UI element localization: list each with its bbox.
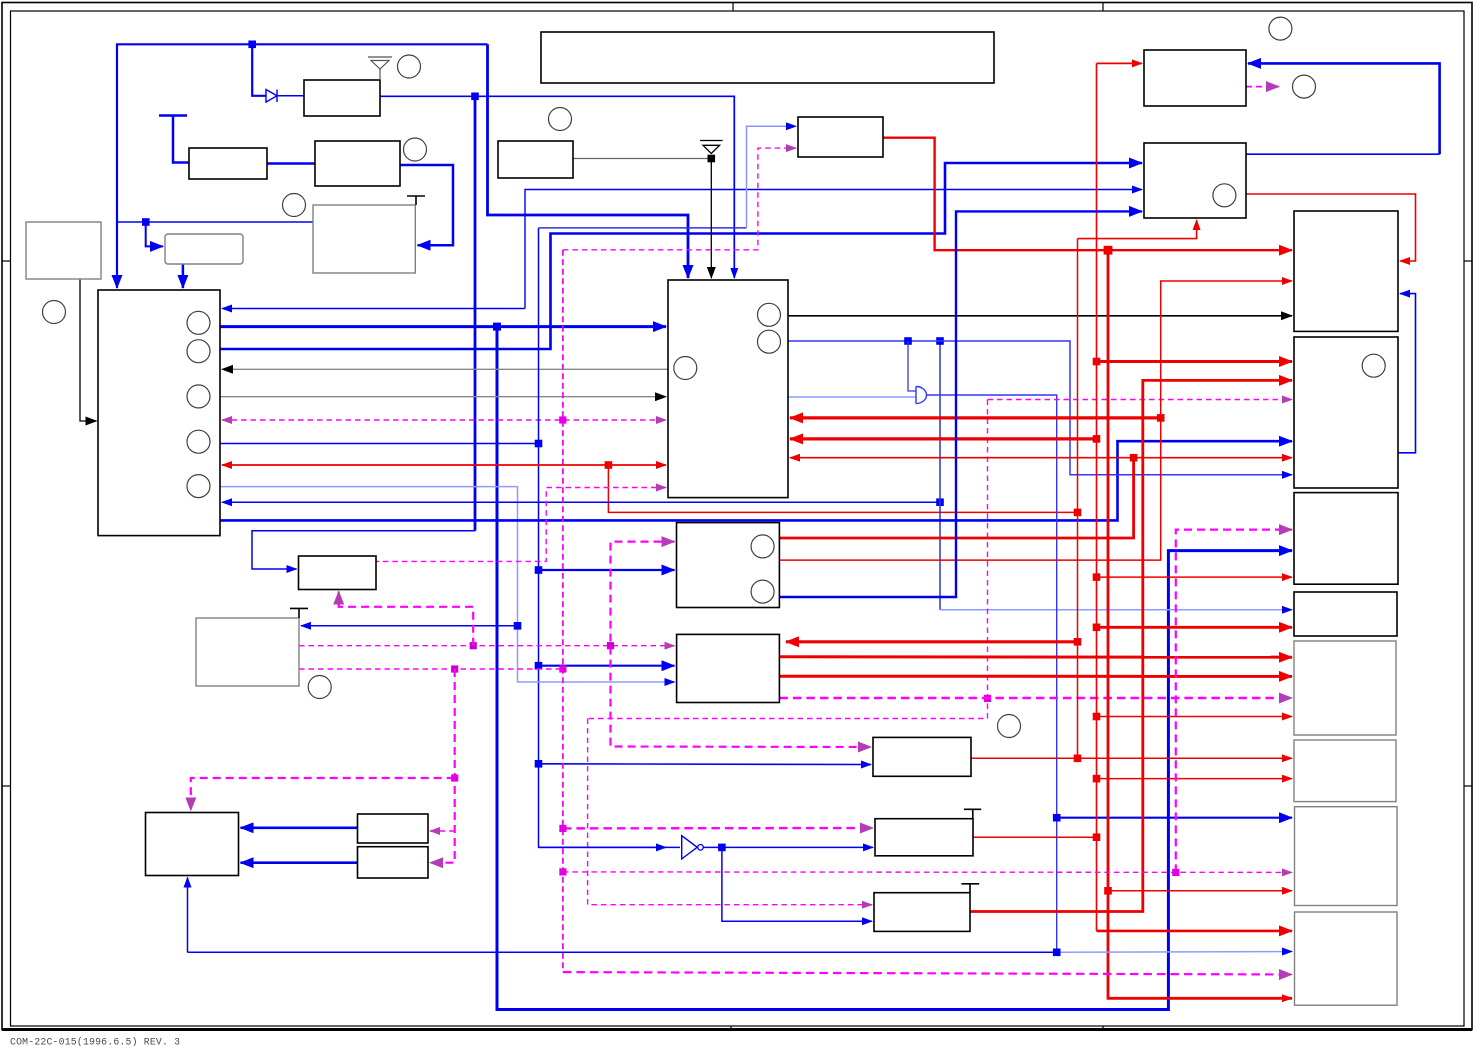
wire: box H blue y=597 up x=956 to box B y=211 bbox=[779, 211, 1142, 597]
block box B bbox=[1144, 143, 1246, 218]
block box5 bbox=[798, 117, 883, 157]
wire: red thick y=439 into center box from x=1096 bbox=[790, 437, 1097, 440]
wire: box B red loop to box C right bbox=[1246, 194, 1416, 261]
block gray TL2 bbox=[313, 205, 415, 273]
junction J6 bbox=[535, 760, 543, 768]
T terminator above box F area bbox=[290, 608, 308, 618]
wire: red y=457.7 center box and box D from x=1133 bbox=[790, 457, 1134, 459]
block box H bbox=[677, 523, 780, 608]
wire: y=222 line to gray box TL2 bbox=[117, 221, 313, 223]
junction J17 bbox=[1130, 454, 1138, 462]
wire: box A magenta stub out bbox=[1246, 86, 1279, 88]
inverter U2 bbox=[682, 836, 698, 859]
junction J23 bbox=[1093, 624, 1101, 632]
wire: y=502 into left box from junction x=940 bbox=[222, 501, 940, 503]
diode to ground symbol above center box bbox=[700, 141, 723, 154]
wire: branch to box G right edge bbox=[301, 625, 518, 627]
block box P bbox=[875, 819, 973, 856]
wire: magenta x=987 corner y=399 into box D bbox=[988, 399, 1293, 401]
wire: thick magenta x=610 into box H and box K bbox=[611, 542, 872, 747]
wire: x=475 thick vertical then to box F bbox=[474, 96, 477, 531]
wire: thick red y=641.8 into box I right bbox=[786, 640, 1078, 643]
block box C bbox=[1294, 211, 1398, 331]
junction J36 bbox=[1053, 949, 1061, 957]
wire: gate input from junction x=908 bbox=[908, 341, 916, 391]
wire: boxes M N to box L thick blue bbox=[241, 826, 358, 829]
wire: box K red y=758 to box H2 bbox=[971, 757, 1292, 759]
junction J16 bbox=[1093, 435, 1101, 443]
wire: box D right to box C right blue loop bbox=[1398, 294, 1416, 453]
block box K bbox=[873, 737, 971, 776]
junction J15 bbox=[1157, 414, 1165, 422]
junction J21 bbox=[1093, 358, 1101, 366]
junction J3 bbox=[535, 440, 543, 448]
block box I2 bbox=[1295, 807, 1398, 906]
junction J12 bbox=[904, 337, 912, 345]
junction J28 bbox=[559, 868, 566, 875]
block box L bbox=[146, 813, 239, 876]
wire: box1 right y=96 to center box top x=734 bbox=[380, 96, 734, 278]
junction J29 bbox=[559, 665, 566, 672]
wire: left box y=326 thick to center box bbox=[220, 325, 666, 328]
wire: box E magenta in from x=1175 bbox=[1176, 530, 1292, 873]
wire: red thick y=418 into center box from x=1161 bbox=[790, 416, 1161, 419]
block center box bbox=[668, 280, 788, 498]
wire: branch x=722 down to box Q bbox=[722, 847, 872, 921]
block box1 bbox=[304, 80, 380, 116]
node circles in center box bbox=[674, 357, 697, 380]
wire: gray from box4 to diode junction bbox=[573, 158, 711, 160]
block box I bbox=[677, 634, 780, 702]
junction J2 bbox=[559, 416, 566, 423]
wire: junction down to small gray box bbox=[146, 222, 163, 246]
wire: x=1108 thick red bus down to box J2 low bbox=[1108, 250, 1292, 998]
wire: thick corner x=487 down to center box top bbox=[488, 44, 689, 278]
block big top bbox=[541, 32, 994, 83]
junction J5 bbox=[535, 662, 543, 670]
wire: y=308 into left box / up x=525 to boxB y=190 bbox=[222, 308, 525, 310]
node circle below box G bbox=[308, 676, 331, 699]
wire: thick magenta into box F bottom bbox=[339, 592, 474, 646]
junction J22 bbox=[1093, 573, 1101, 581]
block left box bbox=[98, 290, 220, 536]
node circle right of box A bbox=[1293, 75, 1316, 98]
wire: x=1142 thick red box Q up to box D bbox=[970, 380, 1292, 911]
junction J19 bbox=[1074, 755, 1082, 763]
wire: magenta x=587 down to box Q bbox=[588, 719, 872, 905]
wire: gray y=397 into center box bbox=[220, 396, 666, 398]
wire: box P red out to x=1096 bbox=[973, 836, 1097, 838]
junction J30 bbox=[559, 825, 566, 832]
wire: box G magenta y=646 to box I bbox=[299, 645, 675, 647]
junction J4 bbox=[535, 566, 543, 574]
wire: left box y=443 to junction x=538 bbox=[220, 443, 539, 445]
junction J1 bbox=[142, 218, 150, 226]
wire: x=1096 branch y=577 to box E bbox=[1097, 576, 1293, 578]
block box H2 bbox=[1294, 740, 1396, 802]
wire: pale gate input from center box bbox=[788, 396, 916, 398]
wire: magenta y=420 between left box and center box bbox=[222, 419, 666, 421]
wire: x=1108 branch y=891 to box I2 bbox=[1108, 890, 1292, 892]
wire: x=538 long vertical bus bbox=[539, 228, 667, 848]
wire: box G magenta y=669 to x=562 bbox=[299, 668, 563, 670]
wire: x=940 vertical down to pale y=609 into box F2 bbox=[939, 341, 941, 610]
junction J34 bbox=[451, 774, 458, 781]
junction J35 bbox=[718, 844, 726, 852]
junction top bus bbox=[248, 41, 256, 49]
wire: x=538 branch to box K bbox=[539, 763, 872, 766]
ground symbol above box1 bbox=[368, 57, 392, 80]
T-symbol blue top left bbox=[159, 116, 189, 163]
block box G2 bbox=[1294, 641, 1396, 735]
T terminator above gray TL2 bbox=[407, 196, 425, 205]
junction J11 bbox=[936, 337, 944, 345]
wire: magenta feed to box5 lower via x=757 bbox=[563, 148, 796, 250]
junction J13 bbox=[1053, 814, 1061, 822]
wire: black center box to box C bbox=[788, 315, 1292, 317]
wire: pale y=486 from left box down x=517 to box I bbox=[220, 487, 675, 682]
wire: gray y=369 arrow into left box bbox=[222, 368, 668, 370]
wire: blue y=341 center box to box D via x=1070 bbox=[788, 341, 1292, 475]
node circles in box H bbox=[751, 535, 774, 558]
block box2 bbox=[189, 148, 267, 179]
svg-text:COM-22C-015(1996.6.5) REV. 3: COM-22C-015(1996.6.5) REV. 3 bbox=[10, 1037, 180, 1046]
node circle at box3 right bbox=[404, 138, 427, 161]
T terminator above box Q bbox=[961, 884, 979, 893]
wire: x=1077 red vertical bbox=[1077, 239, 1079, 759]
gate U1 (half-circle) bbox=[916, 387, 927, 404]
junction J14 bbox=[984, 695, 991, 702]
node circle above box4 bbox=[549, 108, 572, 131]
node circle in box B bbox=[1213, 184, 1236, 207]
wire: x=1057 branch y=817 to box I2 bbox=[1057, 817, 1292, 819]
junction J10 bbox=[936, 498, 944, 506]
wire: black vertical into center box top bbox=[710, 159, 712, 279]
wire: left box y=349 up over to boxB y=163 bbox=[220, 163, 1142, 349]
inverter U2 input wire bbox=[539, 846, 681, 848]
wire: thick y=520 from left box up x=1117 into box D bbox=[220, 441, 1292, 520]
junction J25 bbox=[1093, 775, 1101, 783]
wire: red branch down to y=513 over to x=1077 bbox=[608, 465, 1077, 512]
node circle in box D bbox=[1362, 354, 1385, 377]
node circle left of left box bbox=[43, 301, 66, 324]
wire: thick magenta y=698 box I to box G2 bbox=[779, 697, 1292, 699]
wire: x=497 thick bus down right along bottom up to box E bbox=[497, 327, 1292, 1010]
wire: small gray box down to left box bbox=[182, 264, 185, 288]
wire: red y=465 left box to center box bbox=[222, 464, 666, 466]
wire: gate output down x=1057 to y=952 junction bbox=[927, 395, 1057, 952]
wire: box B to box A blue loop bbox=[1246, 153, 1440, 155]
T terminator above box P bbox=[964, 809, 981, 818]
wire: junction to diode to box1 bbox=[252, 44, 266, 96]
wire: x=1096 branch y=716 to box G2 bbox=[1097, 716, 1293, 718]
wire: x=538 branch to box I bbox=[539, 665, 675, 667]
wire: red into box A from x=1096 bbox=[1097, 62, 1143, 64]
wire: magenta x=454 down to boxes M N and L bbox=[430, 669, 455, 863]
wire: box B bottom red from corner x=1077 bbox=[1078, 220, 1197, 239]
wire: box2 to box3 bbox=[267, 162, 315, 165]
wire: box L bottom feed y=952 long line to box J2 bbox=[187, 878, 189, 953]
block box3 bbox=[315, 141, 400, 186]
block gray small relay bbox=[165, 234, 243, 264]
block box J2 bbox=[1295, 912, 1398, 1005]
block box F2 bbox=[1294, 592, 1397, 636]
junction x=475 y=96 bbox=[471, 93, 479, 101]
wire: x=1096 branch y=778 to box H2 bbox=[1097, 778, 1293, 780]
junction J32 bbox=[607, 642, 614, 649]
wire: magenta x=546 center box to box F bbox=[376, 488, 666, 562]
junction J20 bbox=[1104, 887, 1112, 895]
wire: x=1096 red vertical to corner y=930 thick into box J2 bbox=[1096, 63, 1098, 931]
block gray TL1 bbox=[26, 222, 101, 279]
node circle left of gray TL2 bbox=[283, 194, 306, 217]
wire: box I red outs to box G2 bbox=[779, 655, 1292, 658]
block box F bbox=[299, 556, 377, 590]
block box4 bbox=[498, 141, 573, 178]
wire: x=538 branch to box H bbox=[539, 569, 675, 571]
node circle above box K right bbox=[998, 715, 1021, 738]
node circle near box1 bbox=[398, 55, 421, 78]
wire: magenta y=872 to box I2 bbox=[563, 871, 1292, 874]
wire: box3 to gray box TL2 bbox=[400, 165, 453, 245]
wire: box5 red thick down x=934 along y=250 to box C bbox=[883, 138, 1292, 251]
wire: thick magenta y=828 to box P bbox=[563, 827, 873, 830]
junction J7 bbox=[605, 461, 613, 469]
junction J27 bbox=[1172, 869, 1179, 876]
block box G bbox=[196, 618, 299, 686]
block box D bbox=[1294, 337, 1398, 488]
block box E bbox=[1294, 493, 1398, 585]
junction J33 bbox=[451, 665, 458, 672]
node circles in left box bbox=[187, 311, 210, 334]
wire: box H red y=560 up x=1161 to box C bbox=[779, 281, 1292, 560]
junction J26 bbox=[1093, 833, 1101, 841]
node: black junction at diode bbox=[708, 155, 716, 163]
block box Q bbox=[874, 893, 970, 932]
wire: top blue bus y=44 bbox=[117, 44, 488, 288]
wire: gray TL1 box black line to left box bbox=[80, 279, 97, 421]
wire: feed to box5 upper (pale riser) bbox=[539, 227, 747, 229]
wire: inverter output to box P bbox=[703, 846, 873, 848]
block box M bbox=[358, 814, 429, 843]
block box A bbox=[1144, 50, 1246, 106]
junction J9 bbox=[514, 622, 522, 630]
wire: x=562 long magenta vertical down to box J2 bbox=[562, 250, 564, 972]
wire: x=1096 branch y=361 thick to box D bbox=[1097, 360, 1293, 363]
junction J31 bbox=[470, 642, 477, 649]
diode D1 (blue) bbox=[266, 90, 277, 103]
junction J18 bbox=[1074, 638, 1082, 646]
block box N bbox=[358, 847, 429, 878]
junction J8 bbox=[1074, 509, 1082, 517]
junction J24 bbox=[1093, 713, 1101, 721]
node circle above box A bbox=[1269, 17, 1292, 40]
wire: x=1096 branch y=627 thick to box F2 bbox=[1097, 626, 1293, 629]
wire: box H red y=538 up x=1133 bbox=[779, 458, 1133, 538]
